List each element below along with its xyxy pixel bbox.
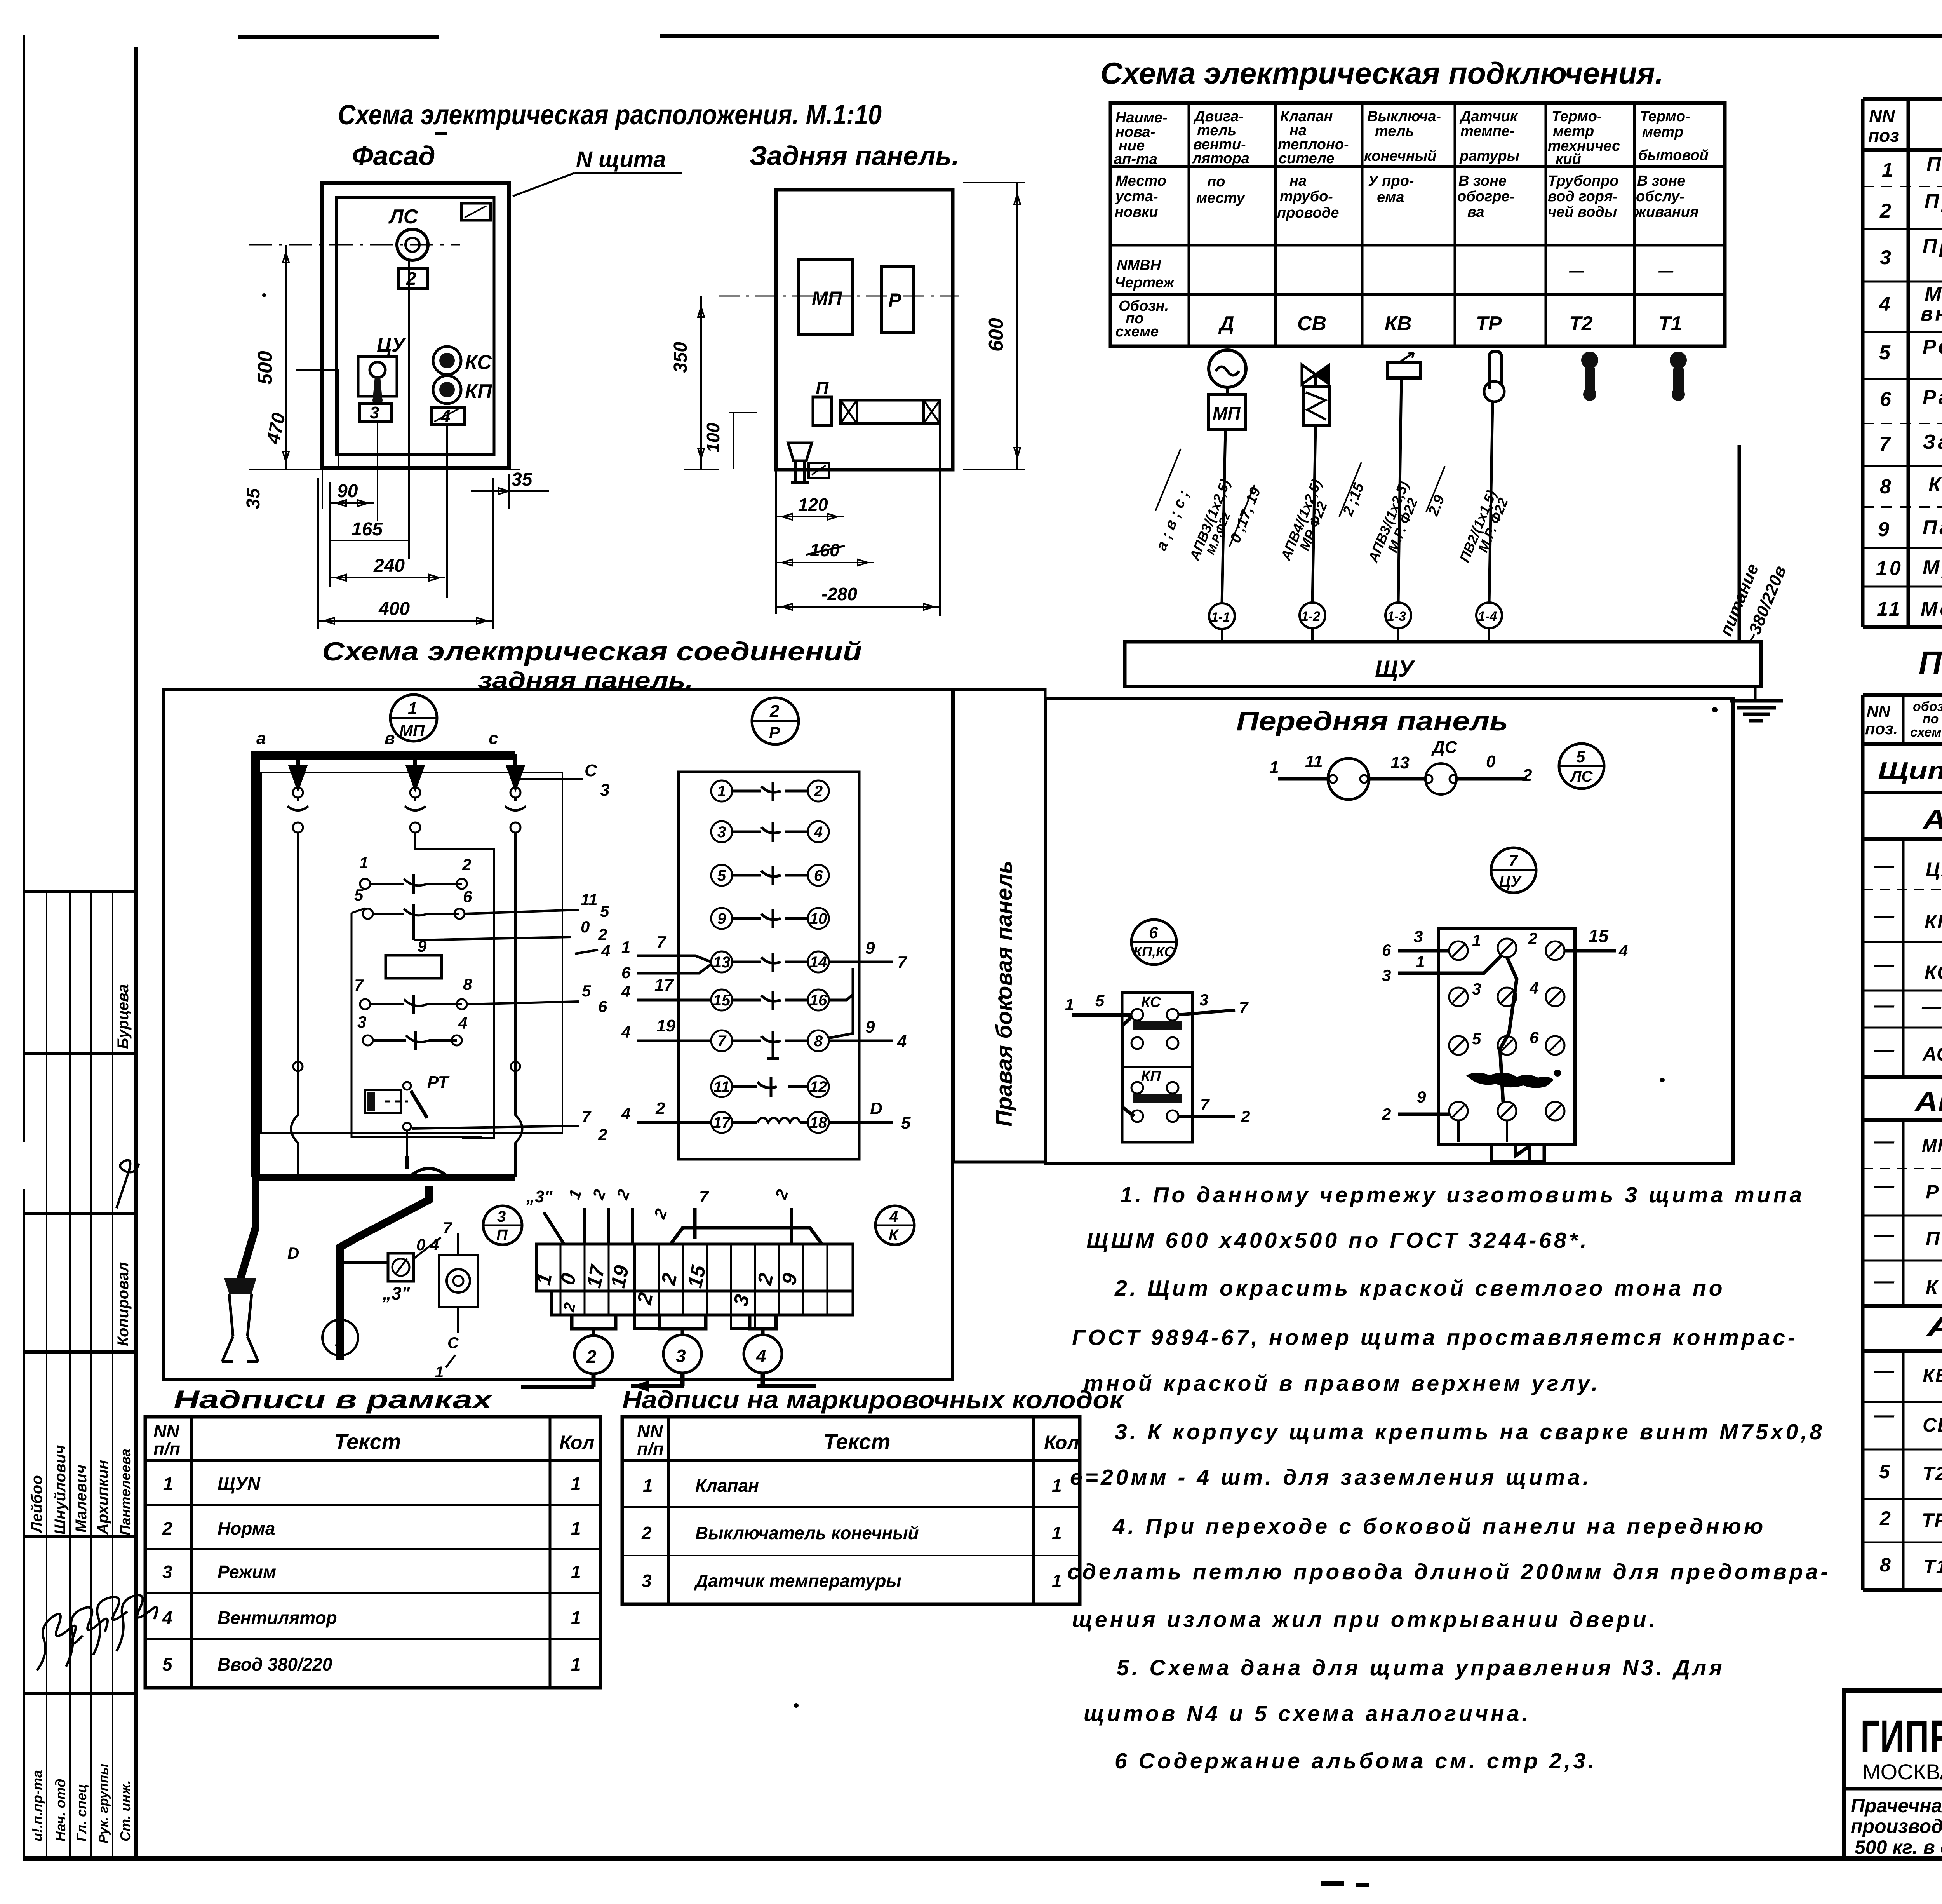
svg-text:7: 7 [443, 1219, 452, 1237]
svg-text:4: 4 [162, 1608, 172, 1628]
svg-text:Т1: Т1 [1923, 1556, 1942, 1578]
svg-text:Передняя панель: Передняя панель [1236, 706, 1508, 736]
svg-text:Аппаратура по месту: Аппаратура по месту [1925, 1310, 1942, 1343]
svg-text:—: — [1874, 994, 1895, 1017]
svg-text:ЛС: ЛС [1570, 768, 1593, 785]
ink smudge [1466, 1073, 1554, 1088]
svg-text:Трубопро: Трубопро [1548, 173, 1618, 189]
svg-text:500 кг. в смену.: 500 кг. в смену. [1855, 1836, 1942, 1858]
svg-text:9: 9 [865, 1017, 875, 1036]
svg-text:11: 11 [1877, 598, 1902, 620]
svg-text:щитов N4 и 5 схема аналог: щитов N4 и 5 схема аналогична. [1084, 1701, 1531, 1726]
svg-text:4: 4 [889, 1208, 898, 1225]
stubs nodes to ЩУ [1222, 628, 1489, 642]
table надписи на колодках [622, 1417, 1080, 1604]
svg-text:13: 13 [1390, 753, 1410, 772]
svg-text:7: 7 [354, 976, 364, 994]
svg-text:схеме: схеме [1910, 725, 1942, 740]
svg-text:сделать петлю провода длино: сделать петлю провода длиной 200мм для п… [1067, 1559, 1831, 1584]
svg-text:Архипкин: Архипкин [94, 1460, 111, 1535]
stamp grid [23, 892, 136, 1859]
svg-text:в: в [385, 729, 395, 748]
svg-text:7: 7 [582, 1107, 592, 1125]
svg-text:живания: живания [1634, 204, 1698, 220]
svg-text:ДС: ДС [1431, 738, 1458, 757]
svg-text:9: 9 [418, 937, 427, 955]
phase a contact [287, 787, 308, 1057]
svg-text:Копировал: Копировал [115, 1262, 132, 1346]
svg-text:500: 500 [254, 351, 277, 385]
svg-text:ЦУ: ЦУ [1499, 873, 1522, 890]
svg-text:Надписи на маркировочных кол: Надписи на маркировочных колодок [622, 1386, 1125, 1414]
phase b contact [405, 787, 426, 845]
svg-text:п/п: п/п [153, 1439, 180, 1459]
svg-text:12: 12 [810, 1078, 827, 1096]
svg-text:МП: МП [812, 287, 842, 309]
svg-text:Р: Р [888, 289, 901, 311]
label underline strokes near wires [1155, 449, 1445, 547]
svg-text:1: 1 [1052, 1523, 1062, 1543]
circle 2/Р [752, 698, 799, 744]
svg-text:3. К корпусу щита крепить: 3. К корпусу щита крепить на сварке винт… [1115, 1420, 1825, 1444]
svg-text:1: 1 [1065, 995, 1074, 1014]
svg-text:—: — [1874, 854, 1895, 877]
svg-text:РТ: РТ [427, 1073, 450, 1092]
svg-text:0 4: 0 4 [416, 1235, 439, 1254]
svg-text:производительностью: производительностью [1851, 1815, 1942, 1837]
svg-text:Текст: Текст [334, 1429, 401, 1454]
thick bus a-b-c [251, 729, 522, 1177]
svg-text:Термо-: Термо- [1640, 108, 1690, 125]
svg-text:9: 9 [717, 910, 726, 927]
cabinet фасад outer [322, 183, 509, 468]
coil МП [386, 918, 610, 978]
svg-text:1-4: 1-4 [1478, 609, 1497, 624]
svg-text:1: 1 [163, 1474, 173, 1494]
svg-text:трубо-: трубо- [1280, 188, 1333, 205]
stamp signatures scribbles [37, 1160, 157, 1671]
circle 1 (кабель) [322, 1320, 358, 1355]
svg-text:ема: ема [1377, 189, 1404, 206]
svg-text:Р: Р [769, 723, 780, 742]
svg-text:2: 2 [162, 1518, 172, 1538]
thermal РТ [365, 1073, 450, 1156]
svg-text:7: 7 [1509, 852, 1518, 870]
node circle (1-1) [1209, 603, 1235, 629]
svg-text:4: 4 [1879, 293, 1893, 315]
table2 section 3 rows [1874, 1356, 1942, 1588]
svg-text:ТР: ТР [1922, 1509, 1942, 1531]
svg-text:4: 4 [897, 1032, 907, 1051]
title block frame [1844, 1690, 1942, 1859]
svg-text:Д: Д [1218, 312, 1234, 335]
svg-text:0: 0 [1486, 752, 1496, 771]
svg-text:Ст. инж.: Ст. инж. [117, 1780, 133, 1841]
svg-text:СВ: СВ [1297, 312, 1326, 335]
cable funnel ввод [222, 1278, 258, 1362]
ввод funnel (задняя) [788, 443, 829, 483]
svg-text:поз: поз [1868, 125, 1899, 146]
wire питание [1738, 445, 1741, 642]
dim 165 [330, 260, 409, 559]
svg-text:35: 35 [512, 469, 533, 490]
svg-text:Т1: Т1 [1658, 312, 1682, 335]
svg-text:ТР: ТР [1476, 312, 1502, 335]
frame slot 1 [461, 203, 491, 220]
frame slot 3 [359, 403, 392, 422]
dim 160 (задняя) [776, 540, 874, 566]
svg-text:Пантелеева: Пантелеева [117, 1449, 133, 1535]
circle 7/ЦУ [1491, 848, 1536, 893]
svg-text:Нач. отд: Нач. отд [52, 1779, 68, 1841]
internal bent wire [1500, 957, 1517, 1102]
svg-text:3: 3 [1382, 966, 1391, 984]
svg-text:Норма: Норма [218, 1518, 275, 1538]
svg-text:Выключа-: Выключа- [1367, 108, 1441, 125]
svg-text:лятора: лятора [1192, 150, 1249, 167]
svg-text:2: 2 [598, 925, 607, 944]
svg-text:Датчик температуры: Датчик температуры [694, 1571, 901, 1591]
leads left [1398, 949, 1449, 953]
svg-text:8: 8 [1880, 1554, 1892, 1576]
svg-text:7: 7 [1200, 1096, 1210, 1114]
front panel box [1045, 699, 1733, 1164]
svg-text:35: 35 [243, 488, 264, 509]
svg-text:1: 1 [1052, 1475, 1062, 1496]
svg-text:—: — [1874, 1130, 1895, 1153]
terminal strip numbers [532, 1263, 802, 1313]
svg-text:месту: месту [1196, 190, 1246, 206]
contact pair 3-4 [357, 1013, 467, 1050]
strip: Правая боковая панель [954, 690, 1045, 1162]
table2 section 2 rows [1874, 1124, 1942, 1307]
brackets to circles 2 3 4 [572, 1315, 776, 1336]
table1 rows text [1876, 153, 1942, 628]
svg-text:Перечень щитов и аппарату: Перечень щитов и аппаратуры [1919, 645, 1942, 681]
svg-text:5: 5 [600, 902, 609, 920]
svg-text:КВ: КВ [1923, 1365, 1942, 1387]
svg-text:Провод установочный с: Провод установочный с [1926, 153, 1942, 176]
svg-text:3: 3 [1414, 927, 1423, 946]
svg-text:ГИПРОБЬПТРОМ: ГИПРОБЬПТРОМ [1860, 1711, 1942, 1762]
svg-text:сителе: сителе [1279, 150, 1335, 167]
table: перечень щитов и аппаратуры (grid) [1863, 695, 1942, 1590]
svg-text:8: 8 [463, 975, 472, 993]
svg-text:7: 7 [1879, 433, 1893, 455]
svg-text:5: 5 [1095, 991, 1105, 1010]
МП inner outline [352, 908, 482, 1137]
svg-text:АС: АС [1922, 1043, 1942, 1065]
svg-text:1: 1 [643, 1475, 653, 1496]
svg-text:1: 1 [1052, 1571, 1062, 1591]
wires to bottom [1458, 1120, 1507, 1142]
svg-text:КС: КС [1925, 962, 1942, 983]
svg-text:6: 6 [814, 867, 823, 884]
РТ right leads [412, 1107, 607, 1144]
svg-text:метр: метр [1642, 124, 1683, 140]
svg-text:—: — [1874, 953, 1895, 976]
device МП box (задняя) [798, 259, 853, 334]
svg-text:4: 4 [814, 824, 823, 841]
svg-text:ратуры: ратуры [1459, 148, 1519, 164]
dim 100 [703, 413, 757, 469]
svg-text:1: 1 [1882, 159, 1895, 181]
table: спецификация материалов (grid) [1863, 99, 1942, 627]
bottom thick bus [240, 1156, 515, 1360]
wires above strip [526, 1187, 822, 1244]
svg-text:Выключатель конечный: Выключатель конечный [695, 1523, 919, 1543]
notes [1067, 1183, 1831, 1773]
svg-text:6: 6 [1530, 1028, 1539, 1047]
svg-text:Рамка для надписи: Рамка для надписи [1923, 386, 1942, 409]
phase loops bottom [291, 1057, 522, 1177]
svg-text:6: 6 [1149, 923, 1158, 942]
svg-text:КП: КП [465, 380, 492, 403]
svg-text:П: П [816, 378, 829, 398]
svg-text:6: 6 [1880, 388, 1893, 411]
svg-text:15: 15 [713, 992, 731, 1009]
svg-text:3: 3 [1880, 246, 1893, 269]
ground под ЩУ [1730, 686, 1783, 721]
svg-text:18: 18 [810, 1114, 827, 1131]
label N щита with leader [513, 147, 682, 196]
sensor ТР symbol [1484, 351, 1504, 402]
svg-text:п/п: п/п [637, 1439, 664, 1459]
valve СВ symbol [1302, 365, 1329, 426]
svg-text:новки: новки [1115, 204, 1158, 220]
svg-text:90: 90 [337, 481, 358, 502]
svg-text:Малевич: Малевич [73, 1465, 90, 1533]
svg-text:на: на [1289, 173, 1307, 189]
svg-text:темпе-: темпе- [1460, 123, 1515, 139]
wire КВ to (1-3) [1398, 378, 1401, 603]
svg-text:Лейбоо: Лейбоо [28, 1475, 45, 1534]
svg-text:КП: КП [1925, 911, 1942, 933]
svg-text:Наиме-: Наиме- [1115, 110, 1168, 126]
svg-text:Шнуйлович: Шнуйлович [52, 1445, 69, 1535]
svg-text:У про-: У про- [1368, 173, 1414, 189]
svg-text:Термо-: Термо- [1552, 108, 1602, 125]
svg-text:4. При переходе с боковой: 4. При переходе с боковой панели на пере… [1112, 1514, 1766, 1539]
svg-text:Ввод 380/220: Ввод 380/220 [218, 1654, 332, 1674]
circle 2 (колодка) [574, 1336, 613, 1374]
device Р box (задняя) [881, 266, 914, 332]
svg-text:15: 15 [1589, 926, 1609, 946]
svg-text:схеме: схеме [1115, 324, 1159, 340]
svg-text:—: — [1874, 905, 1895, 927]
leads right [1564, 949, 1616, 953]
svg-text:Надписи в рамках: Надписи в рамках [174, 1385, 493, 1414]
lamp holder component [435, 1233, 478, 1381]
svg-text:С: С [585, 761, 597, 780]
circle 3 (колодка) [663, 1335, 701, 1373]
svg-text:1: 1 [435, 1364, 444, 1381]
baseline under cabinet [249, 469, 520, 470]
svg-text:1-3: 1-3 [1387, 609, 1406, 624]
svg-text:щения излома жил при откры: щения излома жил при открывании двери. [1072, 1607, 1658, 1632]
svg-text:6: 6 [1382, 941, 1391, 959]
svg-text:5. Схема дана для щита упр: 5. Схема дана для щита управления N3. Дл… [1117, 1655, 1725, 1680]
svg-text:4: 4 [621, 1104, 630, 1123]
svg-text:5: 5 [1576, 747, 1585, 766]
svg-text:2: 2 [598, 1125, 607, 1144]
svg-text:КП: КП [1141, 1068, 1161, 1084]
svg-text:ЩУN: ЩУN [218, 1474, 261, 1494]
svg-text:МОСКВА: МОСКВА [1862, 1759, 1942, 1784]
svg-text:Режим: Режим [218, 1562, 276, 1582]
wire ТР to (1-4) [1489, 402, 1493, 603]
thermometer Т1 symbol [1670, 352, 1687, 401]
svg-text:5: 5 [1879, 341, 1893, 364]
svg-text:Задняя панель.: Задняя панель. [750, 141, 959, 171]
relay P leads right [829, 939, 911, 1132]
stray scan marks [262, 132, 1718, 1887]
svg-text:тель: тель [1375, 123, 1414, 139]
svg-text:5: 5 [354, 886, 364, 904]
svg-text:3: 3 [162, 1562, 172, 1582]
svg-text:Чертеж: Чертеж [1115, 275, 1175, 291]
button КП [433, 376, 492, 404]
svg-text:е=20мм - 4 шт. для заземле: е=20мм - 4 шт. для заземления щита. [1070, 1465, 1592, 1490]
svg-text:1: 1 [571, 1608, 581, 1628]
limit switch КВ symbol [1388, 353, 1421, 378]
svg-text:Фасад: Фасад [352, 141, 435, 171]
svg-text:100: 100 [703, 423, 723, 453]
svg-text:120: 120 [798, 495, 828, 515]
svg-text:Прачечная спецодежды: Прачечная спецодежды [1851, 1795, 1942, 1817]
заголовок: Перечень щитов и аппаратуры [1919, 645, 1942, 681]
svg-text:2: 2 [814, 783, 823, 800]
terminal strip К [536, 1244, 853, 1329]
ground box З [287, 1219, 452, 1303]
svg-text:2. Щит окрасить краской св: 2. Щит окрасить краской светлого тона по [1114, 1276, 1725, 1301]
wire labels (rotated) [1153, 477, 1790, 646]
frame соединений [164, 690, 953, 1380]
circle 6/КП,КС [1131, 920, 1176, 965]
svg-text:проводе: проводе [1277, 205, 1339, 221]
svg-text:17: 17 [654, 976, 674, 995]
circle 4 (колодка) [744, 1335, 782, 1373]
lamp ЛС [388, 206, 428, 260]
svg-text:4: 4 [601, 942, 610, 960]
svg-text:обслу-: обслу- [1636, 188, 1684, 205]
switch ЦУ [358, 334, 407, 405]
svg-text:2: 2 [1879, 200, 1893, 222]
thermometer Т2 symbol [1581, 352, 1598, 401]
svg-text:Место: Место [1115, 173, 1166, 189]
node circle (1-2) [1300, 603, 1325, 628]
svg-text:14: 14 [810, 954, 827, 971]
phase c contact [505, 787, 526, 1057]
frame slot 2 [398, 268, 427, 289]
svg-text:1: 1 [335, 1330, 345, 1350]
motor Д symbol [1209, 350, 1246, 430]
svg-text:1-1: 1-1 [1211, 610, 1230, 625]
svg-text:—: — [1874, 1039, 1895, 1061]
задняя панель rect [776, 190, 953, 470]
svg-text:СВ: СВ [1923, 1414, 1942, 1436]
svg-text:ЦУ: ЦУ [377, 334, 407, 356]
fuse П label+box [813, 378, 832, 425]
svg-text:NМВН: NМВН [1117, 257, 1162, 273]
node circle (1-4) [1476, 603, 1502, 628]
dim 35 (left) [243, 469, 322, 509]
svg-text:2: 2 [586, 1347, 597, 1367]
svg-text:400: 400 [378, 599, 410, 619]
section: подключение [1100, 56, 1790, 721]
svg-text:4: 4 [458, 1014, 467, 1032]
table подключения text [1114, 108, 1709, 340]
svg-text:Схема электрическая соедине: Схема электрическая соединений [322, 637, 862, 666]
svg-text:ва: ва [1467, 204, 1484, 220]
svg-text:4: 4 [621, 1023, 630, 1041]
svg-text:Клапан: Клапан [695, 1475, 759, 1496]
box ЩУ [1125, 642, 1761, 686]
svg-text:D: D [870, 1099, 882, 1118]
lamp ДС assembly [1269, 738, 1532, 800]
svg-text:ап-та: ап-та [1114, 151, 1157, 167]
svg-text:КП,КС: КП,КС [1133, 944, 1175, 960]
circle 4/К [875, 1206, 914, 1245]
svg-text:9: 9 [1417, 1088, 1426, 1106]
svg-text:1: 1 [571, 1562, 581, 1582]
svg-text:N щита: N щита [576, 147, 666, 172]
wire c to С3 [515, 761, 609, 800]
right tables [1863, 99, 1942, 1590]
svg-text:D: D [287, 1244, 299, 1262]
table2 header [1865, 699, 1942, 740]
svg-text:К: К [1926, 1276, 1939, 1298]
wire b drop into block [415, 843, 494, 1138]
svg-text:1: 1 [408, 699, 417, 718]
svg-text:1: 1 [1416, 953, 1425, 971]
svg-text:ЦУ: ЦУ [1926, 859, 1942, 880]
svg-text:7: 7 [897, 953, 908, 972]
svg-text:2: 2 [1382, 1105, 1391, 1123]
circle 5/ЛС [1559, 744, 1604, 789]
dim 600 (right vertical) [963, 183, 1025, 469]
svg-text:1: 1 [571, 1518, 581, 1538]
svg-text:1: 1 [717, 783, 726, 800]
svg-text:ГОСТ 9894-67, номер щита про: ГОСТ 9894-67, номер щита проставляется к… [1072, 1325, 1798, 1350]
terminal strip (задняя) [840, 400, 940, 423]
svg-text:МП: МП [1213, 403, 1241, 423]
svg-text:обогре-: обогре- [1457, 188, 1514, 205]
svg-text:10: 10 [810, 910, 827, 927]
svg-text:„3": „3" [526, 1187, 553, 1206]
frame slot 4 [431, 407, 465, 426]
svg-text:9: 9 [865, 939, 875, 958]
svg-text:13: 13 [713, 954, 731, 971]
section: передняя панель [1045, 699, 1733, 1164]
svg-text:2: 2 [1241, 1107, 1250, 1125]
svg-text:3: 3 [370, 403, 379, 422]
svg-text:КС: КС [1141, 994, 1161, 1010]
svg-text:—: — [1874, 1404, 1895, 1427]
svg-text:метр: метр [1553, 123, 1594, 139]
svg-text:по: по [1207, 174, 1225, 190]
dim 35 (right) [471, 469, 549, 509]
ЦУ switch block [1382, 926, 1628, 1162]
svg-text:КВ: КВ [1385, 312, 1412, 335]
svg-text:1: 1 [359, 854, 368, 872]
section: соединения [164, 637, 953, 1392]
svg-text:1. По данному чертежу изгото: 1. По данному чертежу изготовить 3 щита … [1120, 1183, 1805, 1207]
svg-text:3: 3 [642, 1571, 652, 1591]
svg-text:6: 6 [598, 997, 607, 1016]
svg-text:5: 5 [901, 1113, 911, 1132]
circle 1/МП [390, 695, 437, 741]
